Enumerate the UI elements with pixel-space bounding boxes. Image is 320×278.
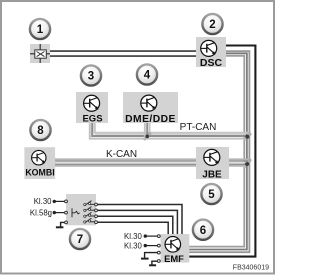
svg-text:JBE: JBE <box>202 169 222 180</box>
svg-text:1: 1 <box>37 24 44 36</box>
svg-text:K-CAN: K-CAN <box>106 149 137 160</box>
svg-text:Kl.30: Kl.30 <box>34 197 52 206</box>
svg-text:6: 6 <box>200 225 206 237</box>
svg-text:Kl.58g: Kl.58g <box>30 208 52 217</box>
svg-text:FB3406019: FB3406019 <box>233 264 269 271</box>
svg-text:EGS: EGS <box>82 114 102 125</box>
svg-text:2: 2 <box>209 19 215 31</box>
svg-text:3: 3 <box>88 71 94 83</box>
svg-text:5: 5 <box>208 189 215 201</box>
svg-text:8: 8 <box>37 125 44 137</box>
svg-text:Kl.30: Kl.30 <box>124 232 142 241</box>
svg-text:7: 7 <box>77 234 83 246</box>
svg-text:KOMBI: KOMBI <box>25 168 54 178</box>
svg-text:DME/DDE: DME/DDE <box>125 114 176 125</box>
svg-text:4: 4 <box>144 70 151 82</box>
svg-text:DSC: DSC <box>200 57 223 69</box>
svg-text:EMF: EMF <box>164 253 184 264</box>
svg-text:PT-CAN: PT-CAN <box>180 122 217 133</box>
svg-text:Kl.30: Kl.30 <box>124 241 142 250</box>
